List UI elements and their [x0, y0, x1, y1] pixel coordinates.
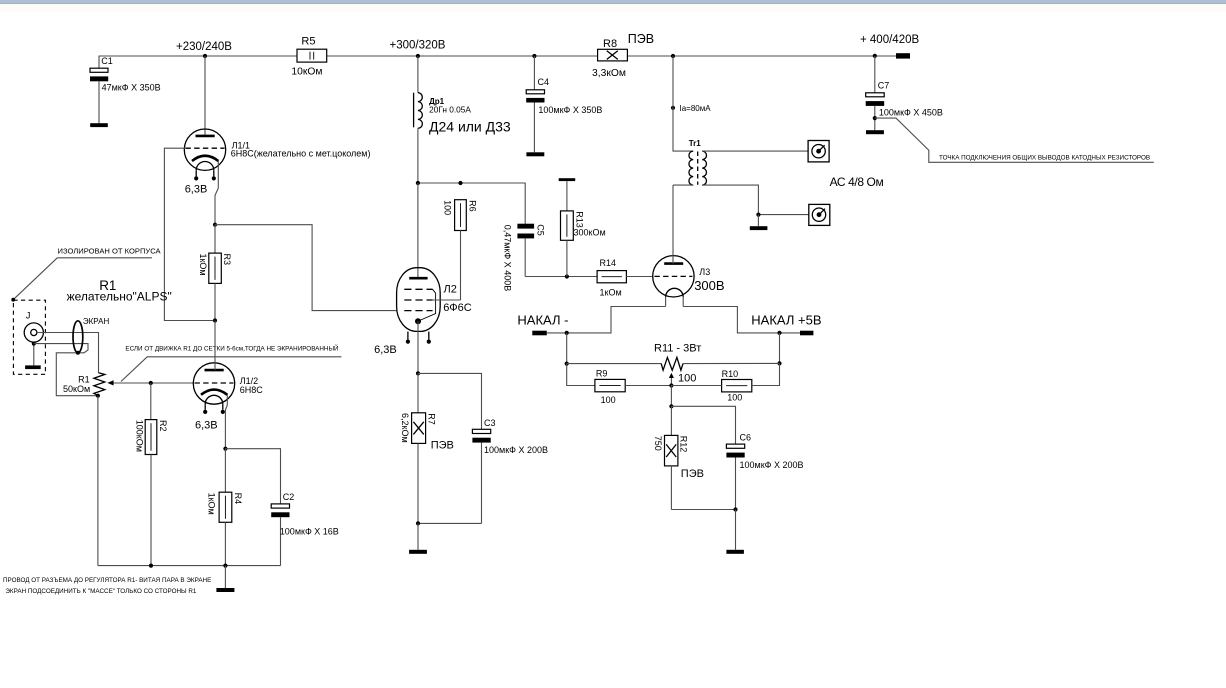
- wire interstage to L2 grid: [215, 225, 397, 311]
- resistor R7: [400, 373, 454, 523]
- wire Tr1 secondary bottom: [702, 185, 809, 215]
- wire L1/1 grid to lower node: [164, 148, 213, 320]
- note twisted pair line2: [5, 588, 196, 595]
- svg-text:R14: R14: [600, 258, 617, 268]
- svg-text:Л3: Л3: [699, 267, 710, 277]
- svg-text:ПЭВ: ПЭВ: [431, 440, 454, 452]
- wire R7 bottom row: [418, 522, 482, 524]
- svg-text:R1: R1: [78, 374, 90, 384]
- label AC 4/8 Ohm: [830, 175, 884, 189]
- svg-text:6,3В: 6,3В: [374, 344, 397, 356]
- resistor R6 screen stopper: [433, 200, 478, 300]
- svg-text:C6: C6: [740, 432, 752, 442]
- svg-text:100: 100: [678, 373, 696, 385]
- node choke/L2 anode: [416, 181, 420, 185]
- resistor R13: [561, 181, 606, 276]
- svg-text:R8: R8: [603, 38, 617, 50]
- wire L1/2 cathode lead: [225, 395, 227, 449]
- node R12 top: [669, 404, 673, 408]
- terminal bar NAKAL-: [517, 313, 568, 336]
- svg-text:+230/240В: +230/240В: [176, 41, 232, 53]
- svg-text:ТОЧКА ПОДКЛЮЧЕНИЯ ОБЩИХ ВЫВОДО: ТОЧКА ПОДКЛЮЧЕНИЯ ОБЩИХ ВЫВОДОВ КАТОДНЫХ…: [939, 154, 1150, 161]
- ground at R7: [409, 523, 427, 553]
- node L2 cathode: [416, 371, 420, 375]
- jack output 1: [808, 141, 829, 162]
- node +230/240V: [176, 41, 232, 58]
- svg-text:6Н8С(желательно с мет.цоколем): 6Н8С(желательно с мет.цоколем): [231, 148, 371, 158]
- svg-text:ЭКРАН: ЭКРАН: [83, 317, 110, 326]
- inductor Dr1 choke: [414, 56, 511, 183]
- svg-text:Л2: Л2: [444, 284, 457, 296]
- svg-text:Tr1: Tr1: [689, 139, 702, 148]
- svg-text:1кОм: 1кОм: [207, 493, 217, 515]
- wire L2 cathode lead: [417, 321, 419, 373]
- triode U L1/2: [193, 363, 263, 432]
- node C6 bottom: [733, 507, 737, 511]
- node R11 left: [565, 362, 569, 366]
- svg-text:1кОм: 1кОм: [600, 288, 622, 298]
- node Ia measurement: [671, 104, 711, 113]
- svg-text:R13: R13: [574, 211, 584, 228]
- resistor R4: [207, 449, 243, 566]
- ground at C7: [866, 130, 884, 134]
- resistor R9: [595, 369, 672, 405]
- transformer Tr1: [689, 139, 707, 185]
- svg-text:300В: 300В: [694, 278, 724, 293]
- svg-text:НАКАЛ +5В: НАКАЛ +5В: [751, 313, 821, 328]
- terminal bar NAKAL+5: [751, 313, 821, 336]
- node wiper R2 junction: [149, 381, 153, 385]
- triode U L1/1: [184, 129, 370, 195]
- svg-text:50кОм: 50кОм: [63, 384, 90, 394]
- wire R1 bottom to bottom rail: [97, 396, 99, 566]
- wire NAKAL+ down leg: [779, 333, 781, 364]
- wire Tr1 primary bottom to anode: [673, 184, 693, 186]
- svg-text:C2: C2: [283, 492, 295, 502]
- svg-text:47мкФ Х 350В: 47мкФ Х 350В: [102, 83, 161, 93]
- svg-text:+300/320В: +300/320В: [390, 39, 446, 51]
- node C7 cathode-point: [873, 116, 877, 120]
- svg-text:АС 4/8 Ом: АС 4/8 Ом: [830, 175, 884, 189]
- node C4 junction: [532, 54, 536, 58]
- capacitor C1: [90, 56, 161, 123]
- svg-text:C1: C1: [101, 56, 113, 66]
- svg-text:10кОм: 10кОм: [291, 66, 322, 77]
- svg-text:100кОм: 100кОм: [134, 420, 144, 452]
- resistor R10: [671, 363, 779, 402]
- wire wiper node down: [670, 386, 672, 407]
- potentiometer R1: [63, 373, 114, 396]
- callout line cathode common point: [875, 118, 1154, 162]
- svg-text:750: 750: [653, 436, 663, 451]
- svg-text:J: J: [26, 310, 31, 320]
- node R11 right: [777, 361, 781, 365]
- svg-text:R12: R12: [679, 436, 689, 453]
- node R2 bottom: [149, 564, 153, 568]
- note isolated from chassis: [11, 247, 161, 302]
- wire L1/2 anode lead: [214, 321, 216, 371]
- node secondary return: [756, 213, 760, 217]
- svg-text:ПЭВ: ПЭВ: [628, 32, 654, 46]
- node R1 bottom: [96, 394, 100, 398]
- resistor R8: [592, 32, 654, 79]
- svg-text:20Гн 0.05А: 20Гн 0.05А: [429, 105, 471, 115]
- capacitor C3: [418, 373, 548, 523]
- capacitor C2: [225, 449, 338, 566]
- svg-text:100: 100: [601, 395, 616, 405]
- wire NAKAL- down leg: [566, 333, 568, 364]
- terminal bar +400/420V: [896, 53, 910, 58]
- svg-text:ПЭВ: ПЭВ: [681, 468, 704, 480]
- wire R9 row: [567, 364, 595, 386]
- label R1 ALPS: [67, 278, 172, 303]
- capacitor C4: [526, 56, 602, 152]
- svg-text:R4: R4: [233, 493, 243, 505]
- resistor R14: [597, 258, 653, 298]
- svg-text:6Н8С: 6Н8С: [240, 385, 264, 395]
- wire L1/1 cathode lead: [215, 161, 218, 225]
- node +300/320V: [390, 39, 446, 58]
- node R7 bottom: [416, 521, 420, 525]
- wire choke output row: [418, 183, 525, 224]
- ground at C1: [90, 123, 108, 127]
- wire L3 anode lead: [672, 185, 674, 264]
- wire main B+ rail: [99, 56, 896, 68]
- svg-text:100мкФ Х 200В: 100мкФ Х 200В: [484, 445, 548, 455]
- ground at C6: [726, 510, 744, 554]
- node NAKAL+ top: [777, 331, 781, 335]
- svg-text:C4: C4: [538, 77, 550, 87]
- triode U L3 300B: [653, 256, 725, 307]
- wire B+ to Tr1 primary: [673, 56, 693, 151]
- node +400/420V: [860, 34, 919, 58]
- svg-text:6Ф6С: 6Ф6С: [443, 302, 472, 314]
- svg-text:100: 100: [727, 392, 742, 402]
- wire L3 filament left to NAKAL-: [547, 307, 666, 333]
- svg-text:3,3кОм: 3,3кОм: [592, 68, 626, 79]
- svg-text:100: 100: [443, 200, 453, 215]
- svg-text:6,3В: 6,3В: [195, 419, 218, 431]
- resistor R5: [291, 36, 326, 78]
- node L1/2 cathode: [223, 447, 227, 451]
- node NAKAL- top: [565, 331, 569, 335]
- svg-text:100мкФ Х 16В: 100мкФ Х 16В: [280, 527, 339, 537]
- svg-text:R7: R7: [427, 413, 437, 425]
- capacitor C7: [866, 56, 943, 130]
- svg-text:R6: R6: [467, 200, 477, 212]
- wire signal conductor J to R1 top: [37, 333, 99, 373]
- svg-text:ПРОВОД ОТ РАЗЪЕМА ДО РЕГУЛЯТОР: ПРОВОД ОТ РАЗЪЕМА ДО РЕГУЛЯТОРА R1- ВИТА…: [3, 577, 211, 584]
- node B+ to Tr1: [671, 54, 675, 58]
- svg-text:100мкФ Х 200В: 100мкФ Х 200В: [740, 460, 804, 470]
- wire R1 wiper to L1/2 grid: [113, 382, 193, 384]
- svg-text:R9: R9: [596, 369, 608, 379]
- note twisted pair line1: [3, 577, 211, 584]
- svg-text:желательно"ALPS": желательно"ALPS": [67, 289, 172, 303]
- svg-text:C3: C3: [484, 418, 496, 428]
- svg-text:300кОм: 300кОм: [574, 227, 606, 237]
- svg-text:Ia=80мА: Ia=80мА: [680, 104, 712, 113]
- node R4 bottom ground junction: [223, 564, 227, 568]
- svg-text:C5: C5: [535, 224, 545, 236]
- svg-text:R3: R3: [222, 254, 232, 266]
- node L1/1 cathode: [213, 223, 217, 227]
- svg-text:R5: R5: [301, 36, 315, 48]
- capacitor C5: [503, 224, 546, 292]
- svg-text:ИЗОЛИРОВАН ОТ КОРПУСА: ИЗОЛИРОВАН ОТ КОРПУСА: [58, 247, 162, 256]
- svg-text:100мкФ Х 350В: 100мкФ Х 350В: [538, 105, 602, 115]
- resistor R12: [653, 406, 704, 509]
- wire L2 anode lead: [417, 183, 419, 278]
- ground at C4: [526, 152, 544, 156]
- svg-text:ЭКРАН ПОДСОЕДИНИТЬ К "МАССЕ" Т: ЭКРАН ПОДСОЕДИНИТЬ К "МАССЕ" ТОЛЬКО СО С…: [5, 588, 196, 595]
- svg-text:НАКАЛ -: НАКАЛ -: [517, 313, 568, 328]
- ground at bottom rail: [216, 566, 234, 592]
- node J sleeve: [32, 342, 36, 346]
- wire Tr1 secondary top to jack: [702, 150, 808, 152]
- ground inside J box: [25, 342, 41, 369]
- node shield bottom: [76, 351, 80, 355]
- note if wiper to grid 5-6cm: [121, 343, 341, 381]
- wire R12 bottom row: [671, 509, 735, 511]
- svg-text:0,47мкФ Х 400В: 0,47мкФ Х 400В: [503, 225, 513, 292]
- wire rail to L1/1 anode: [204, 56, 206, 136]
- node R3 bottom / L1/2 anode: [213, 318, 217, 322]
- resistor R3: [198, 225, 232, 321]
- svg-text:R2: R2: [158, 420, 168, 432]
- wire L3 filament right to NAKAL+5: [683, 307, 800, 333]
- shield screen ellipse: [73, 317, 109, 353]
- connector J jack: [24, 323, 43, 342]
- node R6 top: [458, 181, 462, 185]
- wire bottom rail left: [98, 565, 281, 567]
- node R13 bottom: [565, 274, 569, 278]
- resistor R2: [134, 383, 167, 566]
- wire return conductor J sleeve: [34, 344, 98, 396]
- pentode U L2: [374, 268, 472, 356]
- resistor R11 hum pot: [567, 343, 780, 386]
- capacitor C6: [671, 406, 803, 509]
- jack output 2: [809, 204, 830, 225]
- svg-text:6,3В: 6,3В: [185, 183, 208, 195]
- wire C5 to R14 row: [525, 276, 597, 278]
- svg-text:100мкФ Х 450В: 100мкФ Х 450В: [879, 108, 943, 118]
- svg-text:ЕСЛИ ОТ ДВИЖКА R1 ДО СЕТКИ 5-6: ЕСЛИ ОТ ДВИЖКА R1 ДО СЕТКИ 5-6см,ТОГДА Н…: [125, 343, 339, 352]
- svg-text:R10: R10: [722, 369, 739, 379]
- svg-text:R11 - 3Вт: R11 - 3Вт: [654, 343, 701, 355]
- svg-text:Д24 или Д33: Д24 или Д33: [429, 119, 511, 135]
- node R9 right / wiper: [669, 383, 673, 387]
- svg-text:+ 400/420В: + 400/420В: [860, 34, 919, 46]
- svg-text:1кОм: 1кОм: [198, 254, 208, 276]
- terminal bar R13 top: [559, 178, 576, 181]
- connector J dashed box: [13, 300, 45, 374]
- svg-text:6,2кОм: 6,2кОм: [400, 413, 410, 443]
- svg-text:C7: C7: [878, 80, 890, 90]
- ground at Tr1 secondary: [750, 215, 768, 230]
